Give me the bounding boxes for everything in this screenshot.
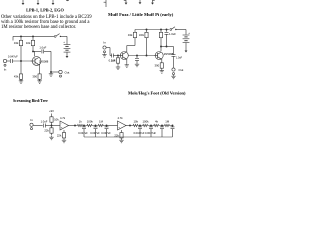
svg-text:1.0uF: 1.0uF — [169, 32, 176, 36]
svg-text:390: 390 — [32, 75, 37, 79]
svg-text:0.0047uF: 0.0047uF — [145, 131, 156, 135]
svg-text:43k: 43k — [14, 41, 19, 45]
svg-text:In: In — [30, 118, 33, 122]
svg-text:2N5088: 2N5088 — [164, 52, 174, 56]
svg-text:43k: 43k — [128, 33, 133, 37]
svg-text:Screaming Bird/Tree: Screaming Bird/Tree — [13, 99, 48, 103]
svg-text:4.7k: 4.7k — [60, 116, 66, 120]
svg-text:0.047uF: 0.047uF — [78, 131, 88, 135]
svg-text:In: In — [4, 68, 7, 72]
svg-text:0.0047uF: 0.0047uF — [134, 131, 145, 135]
svg-text:10k: 10k — [133, 120, 138, 124]
svg-text:10k: 10k — [54, 118, 59, 122]
svg-text:Muff Fuzz / Little Muff Pi (ea: Muff Fuzz / Little Muff Pi (early) — [108, 12, 174, 17]
svg-text:1.0uF: 1.0uF — [41, 119, 48, 123]
svg-text:22k: 22k — [44, 129, 49, 133]
svg-text:1M: 1M — [165, 120, 170, 124]
svg-text:Out: Out — [65, 70, 70, 74]
svg-text:1M resistor between base and c: 1M resistor between base and collector. — [1, 25, 76, 30]
svg-text:10k: 10k — [26, 41, 31, 45]
svg-text:LPB-1, LPB-2, EGO: LPB-1, LPB-2, EGO — [26, 8, 64, 13]
svg-text:4.7k: 4.7k — [117, 116, 123, 120]
svg-text:In: In — [103, 41, 106, 45]
svg-text:43k: 43k — [14, 75, 19, 79]
svg-text:390: 390 — [155, 64, 160, 68]
svg-text:1.0uF: 1.0uF — [176, 57, 183, 60]
svg-text:Mole/Hog's Foot (Old Version): Mole/Hog's Foot (Old Version) — [128, 90, 186, 95]
svg-text:22k: 22k — [114, 133, 119, 137]
svg-text:100k: 100k — [87, 120, 94, 124]
svg-text:10k: 10k — [111, 59, 116, 63]
svg-text:+9V: +9V — [49, 109, 54, 113]
svg-text:100k: 100k — [142, 120, 149, 124]
svg-text:0.047uF: 0.047uF — [101, 131, 111, 135]
svg-text:Out: Out — [179, 68, 184, 72]
svg-text:22k: 22k — [57, 133, 62, 137]
svg-text:1M: 1M — [99, 120, 104, 124]
svg-text:0.047uF: 0.047uF — [8, 54, 18, 58]
svg-text:0.047uF: 0.047uF — [90, 131, 100, 135]
svg-text:100k: 100k — [139, 35, 145, 37]
svg-text:2N5088: 2N5088 — [39, 59, 49, 63]
svg-text:1.0uF: 1.0uF — [39, 46, 46, 50]
